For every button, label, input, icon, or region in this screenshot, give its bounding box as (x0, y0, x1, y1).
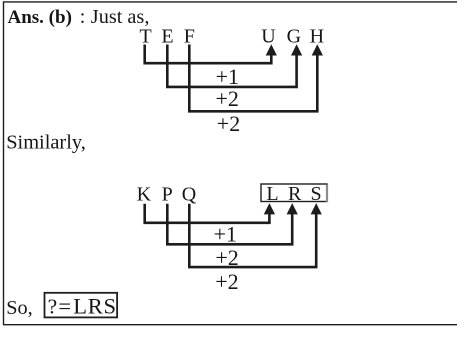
svg-text:L: L (266, 183, 278, 205)
svg-text:+2: +2 (217, 111, 240, 136)
wire P to R (167, 204, 292, 245)
svg-text:S: S (310, 183, 321, 205)
arrowhead at R (287, 203, 298, 214)
label +2 (F to H) (217, 111, 240, 136)
node Q (182, 183, 197, 205)
arrowhead at L (264, 203, 275, 214)
wire Q to S (189, 204, 316, 267)
svg-text:H: H (310, 25, 324, 47)
label +2 (P to R) (215, 245, 238, 270)
svg-text:Similarly,: Similarly, (6, 132, 86, 154)
wire T to U (145, 45, 272, 64)
svg-text:E: E (161, 25, 173, 47)
heading "Ans. (b) : Just as," (8, 6, 150, 28)
node K (137, 183, 152, 205)
svg-text::: : (80, 6, 86, 28)
node E (161, 25, 173, 47)
wire K to L (145, 204, 270, 223)
text "So," (6, 297, 33, 319)
svg-text:+2: +2 (215, 269, 238, 294)
svg-text:+2: +2 (215, 245, 238, 270)
svg-text:F: F (184, 25, 195, 47)
node R (288, 183, 302, 205)
svg-text:K: K (137, 183, 152, 205)
node H (310, 25, 324, 47)
svg-text:Q: Q (182, 183, 197, 205)
label +1 (K to L) (214, 222, 237, 247)
arrowhead at G (291, 44, 302, 55)
label +2 (Q to S) (215, 269, 238, 294)
node P (162, 183, 173, 205)
wire E to G (167, 45, 296, 87)
node L (266, 183, 278, 205)
arrowhead at H (312, 44, 323, 55)
svg-text:P: P (162, 183, 173, 205)
node U (261, 25, 276, 47)
label +1 (T to U) (216, 64, 239, 89)
answer box (45, 293, 118, 318)
arrowhead at U (266, 44, 277, 55)
svg-text:So,: So, (6, 297, 33, 319)
svg-text:G: G (287, 25, 301, 47)
node G (287, 25, 301, 47)
arrowhead at S (311, 203, 322, 214)
svg-text:Ans. (b): Ans. (b) (8, 7, 72, 28)
svg-text:+2: +2 (215, 86, 238, 111)
node T (139, 25, 151, 47)
svg-text:+1: +1 (214, 222, 237, 247)
svg-text:R: R (288, 183, 302, 205)
wire F to H (189, 45, 317, 112)
svg-text:U: U (261, 25, 276, 47)
text "Similarly," (6, 132, 86, 154)
node S (310, 183, 321, 205)
box around LRS (261, 184, 328, 202)
label +2 (E to G) (215, 86, 238, 111)
svg-text:T: T (139, 25, 151, 47)
node F (184, 25, 195, 47)
answer text ? = LRS (48, 294, 117, 319)
svg-text:?=LRS: ?=LRS (48, 294, 117, 319)
